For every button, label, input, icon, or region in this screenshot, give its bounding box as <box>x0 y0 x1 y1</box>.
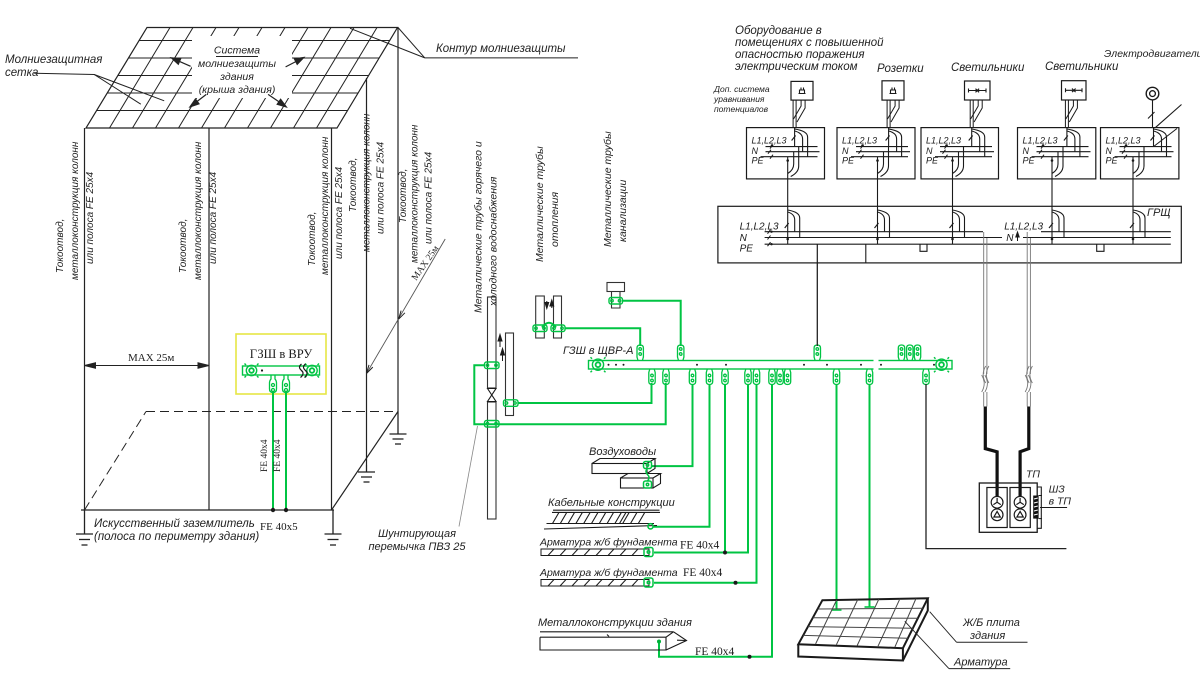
GRSHCH box <box>718 206 1181 263</box>
sewer pipe funnel <box>607 283 625 309</box>
ground perimeter line <box>81 509 334 511</box>
up clamp to GRSHCH PE <box>814 345 820 361</box>
svg-text:FE 40х5: FE 40х5 <box>260 521 298 533</box>
flow arrow pipe1 <box>498 335 502 348</box>
svg-text:Доп. система: Доп. система <box>713 84 770 94</box>
arrow to mesh upper-right <box>286 58 304 67</box>
cable device2 <box>887 100 899 128</box>
svg-text:металлоконструкция колонн: металлоконструкция колонн <box>410 124 421 263</box>
tap from box1 <box>785 206 800 244</box>
svg-text:MAX 25м: MAX 25м <box>128 352 174 364</box>
spare up clamp 2 <box>907 345 913 361</box>
slab wire end tick 1 <box>832 609 842 611</box>
air duct 1 <box>592 459 655 474</box>
transformer 1 delta circle <box>991 509 1003 521</box>
duct clamp 1 <box>644 462 652 469</box>
ground symbol column3 <box>325 510 342 545</box>
tap dot box5 <box>1132 238 1135 241</box>
svg-text:здания: здания <box>969 630 1005 642</box>
GZSh VRU break squiggle <box>300 364 308 378</box>
tap dot box3 <box>951 238 954 241</box>
clamp pipe2 <box>504 400 519 407</box>
socket device 2 <box>882 81 904 100</box>
arrow to mesh lower-right <box>268 94 286 107</box>
down clamp tray <box>706 369 712 385</box>
svg-text:ГЗШ в ЩВР-А: ГЗШ в ЩВР-А <box>563 345 633 357</box>
bus left bolt <box>591 357 606 372</box>
arrow to mesh upper-left <box>171 58 190 67</box>
duct jumper <box>646 469 649 482</box>
down-conductor column 2 <box>208 128 210 510</box>
hot pipes U jumper <box>542 323 556 328</box>
black loop wire to TP <box>926 384 1066 549</box>
tap from box3 <box>950 206 965 244</box>
svg-text:канализации: канализации <box>617 179 629 242</box>
svg-text:или полоса FE 25х4: или полоса FE 25х4 <box>85 171 96 264</box>
leader from kontur label <box>350 28 578 58</box>
svg-text:Токоотвод,: Токоотвод, <box>307 212 318 266</box>
svg-text:L1,L2,L3: L1,L2,L3 <box>740 222 779 233</box>
slab wire end tick 2 <box>865 606 875 608</box>
wire beam <box>659 384 772 657</box>
svg-text:N: N <box>842 146 849 156</box>
conductor text column2 <box>178 141 219 280</box>
black wire GRSHCH to bus <box>816 263 818 346</box>
svg-text:FE 40х4: FE 40х4 <box>260 439 270 472</box>
box5 labels <box>1106 136 1141 166</box>
floor rear dashed edge <box>85 412 399 511</box>
clamp on VRU bus right <box>283 375 290 393</box>
GZSh VRU left bolt <box>245 364 259 378</box>
rebar bar 1 <box>541 549 649 556</box>
heating pipe <box>506 333 514 416</box>
svg-text:Токоотвод,: Токоотвод, <box>348 158 359 212</box>
water pipe upper <box>488 297 497 519</box>
wire ducts <box>651 384 693 466</box>
svg-text:L1,L2,L3: L1,L2,L3 <box>1106 136 1141 146</box>
svg-text:(полоса по периметру здания): (полоса по периметру здания) <box>94 531 259 543</box>
down-conductor column 4 <box>366 78 368 465</box>
transformer cell 1 <box>987 488 1007 528</box>
transformer right wall <box>1037 487 1041 528</box>
dop sistema label <box>713 84 770 114</box>
svg-text:L1,L2,L3: L1,L2,L3 <box>752 136 787 146</box>
FE 40x4 wire left <box>272 393 274 510</box>
box3 ticks <box>943 145 948 159</box>
MAX 25m dimension <box>85 363 210 368</box>
down-conductor column 1 <box>84 128 86 510</box>
svg-text:Арматура: Арматура <box>953 657 1008 669</box>
svg-text:FE 40х4: FE 40х4 <box>683 567 723 579</box>
svg-text:Ж/Б плита: Ж/Б плита <box>962 617 1020 629</box>
svg-text:металлоконструкция колонн: металлоконструкция колонн <box>320 136 331 275</box>
beam green dot <box>657 640 661 644</box>
label iskusstvenny zazemlitel <box>94 518 259 543</box>
water pipes label <box>473 141 500 313</box>
svg-text:L1,L2,L3: L1,L2,L3 <box>926 136 961 146</box>
svg-text:опасностью поражения: опасностью поражения <box>735 49 865 61</box>
tap dot box4 <box>1051 238 1054 241</box>
GZSh VRU bus bar <box>243 366 320 375</box>
GRSHCH left labels <box>740 222 779 255</box>
svg-text:L1,L2,L3: L1,L2,L3 <box>1004 222 1043 233</box>
PE bond stub <box>865 244 867 263</box>
svg-text:Оборудование в: Оборудование в <box>735 25 822 37</box>
clamp sewer pipe <box>609 298 623 305</box>
GRSHCH L bus <box>765 231 1171 233</box>
box5 extra diagonal <box>1154 129 1178 147</box>
transformer 2 delta circle <box>1014 509 1026 521</box>
svg-text:Светильники: Светильники <box>951 62 1025 74</box>
box3 labels <box>926 136 961 166</box>
svg-text:Металлические трубы: Металлические трубы <box>602 131 614 247</box>
ShZ leader <box>1040 507 1067 509</box>
svg-text:N: N <box>1006 233 1014 244</box>
box3 bus lines <box>935 147 994 157</box>
svg-text:здания: здания <box>219 71 254 83</box>
svg-text:Кабельные конструкции: Кабельные конструкции <box>548 497 675 509</box>
MAX 25m diagonal label <box>367 239 446 374</box>
water pipe valve <box>488 389 497 402</box>
box2 PE dot <box>876 159 879 162</box>
svg-text:Шунтирующая: Шунтирующая <box>378 528 456 540</box>
eq box3 to GRSHCH wire <box>952 179 954 206</box>
slab leader <box>930 612 957 643</box>
svg-text:электрическим током: электрическим током <box>735 61 858 73</box>
svg-text:ГРЩ: ГРЩ <box>1147 207 1170 219</box>
box4 PE dot <box>1051 159 1054 162</box>
tap dot box1 <box>786 238 789 241</box>
svg-text:помещениях с повышенной: помещениях с повышенной <box>735 37 884 49</box>
box3 supply drop <box>969 128 985 157</box>
box1 labels <box>752 136 787 166</box>
svg-text:или полоса FE 25х4: или полоса FE 25х4 <box>334 166 345 259</box>
down clamp slab1 <box>833 369 839 385</box>
transformer 1 star circle <box>991 496 1003 508</box>
armatura leader <box>905 621 949 668</box>
box2 bus lines <box>851 147 910 157</box>
socket device 1 <box>791 81 813 100</box>
box1 bus lines <box>761 147 820 157</box>
down clamp rebar1 <box>722 369 728 385</box>
svg-text:Система: Система <box>214 45 260 57</box>
feeder 1 thick cable <box>985 407 997 498</box>
eq box 3 <box>921 128 999 179</box>
up clamp to hot pipes <box>637 345 643 361</box>
box2 L dot <box>861 144 864 147</box>
box2 supply drop <box>886 128 902 157</box>
tap dot box2 <box>876 238 879 241</box>
transformer cell 2 <box>1010 488 1030 528</box>
spare down clamp 1 <box>777 369 783 385</box>
tap from box4 <box>1049 206 1064 244</box>
eq box 2 <box>837 128 915 179</box>
motor symbol <box>1146 87 1159 100</box>
feeder 2 thin lines <box>1027 232 1030 407</box>
clamp on VRU bus left <box>270 375 277 393</box>
transformer outer box <box>979 483 1037 532</box>
eq box 1 <box>747 128 825 179</box>
lamp device 1 <box>965 81 991 100</box>
wire slab1 <box>836 384 838 610</box>
cable motor <box>1148 100 1182 128</box>
hot pipes wire to bus <box>565 328 640 346</box>
PE notch 2 <box>1097 244 1104 251</box>
shunt label <box>368 528 466 553</box>
box4 bus lines <box>1032 147 1091 157</box>
svg-text:металлоконструкция колонн: металлоконструкция колонн <box>70 141 81 280</box>
tap from box2 <box>875 206 890 244</box>
cable lamp2 <box>1065 100 1077 128</box>
eq box1 to GRSHCH wire <box>787 179 789 206</box>
box1 ticks <box>768 145 773 159</box>
spare up clamp 1 <box>898 345 904 361</box>
up clamp to sewer <box>678 345 684 361</box>
FE 40x4 wire right <box>285 393 287 510</box>
bus dots <box>608 364 936 366</box>
svg-text:перемычка ПВЗ 25: перемычка ПВЗ 25 <box>368 541 466 553</box>
junction dot beam <box>748 655 752 659</box>
box5 ticks <box>1122 145 1127 159</box>
hot pipes pair <box>536 296 562 338</box>
shunt jumper wire <box>474 365 665 424</box>
eq box5 to GRSHCH wire <box>1132 179 1134 206</box>
GZSh VRU dot <box>261 369 263 371</box>
wire rebar1 junction <box>724 384 726 553</box>
svg-text:потенциалов: потенциалов <box>714 104 769 114</box>
junction dot rebar2 <box>734 581 738 585</box>
box4 supply drop <box>1064 128 1080 157</box>
svg-text:металлоконструкция колонн: металлоконструкция колонн <box>362 113 373 252</box>
heating pipes label <box>534 146 561 262</box>
svg-text:N: N <box>740 233 748 244</box>
mesh text hole <box>192 36 292 98</box>
leader from setka label <box>34 73 164 104</box>
down clamp beam <box>769 369 775 385</box>
clamp hot pipe right <box>551 325 565 332</box>
svg-text:ТП: ТП <box>1026 469 1040 481</box>
clamp pipe1 upper <box>485 362 500 369</box>
cable lamp1 <box>970 100 982 128</box>
duct clamp 2 <box>644 481 652 488</box>
svg-text:холодного водоснабжения: холодного водоснабжения <box>488 176 500 307</box>
wire rebar1 <box>654 384 748 553</box>
GRSHCH N arrow <box>1016 232 1019 241</box>
eq box2 to GRSHCH wire <box>877 179 879 206</box>
spare up clamp 3 <box>914 345 920 361</box>
svg-text:L1,L2,L3: L1,L2,L3 <box>1023 136 1058 146</box>
box1 PE exit <box>788 147 799 179</box>
wire tray <box>653 384 710 527</box>
down clamp slab2 <box>866 369 872 385</box>
svg-text:Светильники: Светильники <box>1045 61 1119 73</box>
GZSh VRU yellow box <box>236 334 326 394</box>
air duct 2 <box>621 474 661 489</box>
svg-text:ШЗ: ШЗ <box>1049 484 1066 496</box>
svg-text:FE 40х4: FE 40х4 <box>273 439 283 472</box>
steel beam <box>540 632 687 650</box>
GZSh VRU right bolt <box>305 364 319 378</box>
svg-text:Металлические трубы: Металлические трубы <box>534 146 546 262</box>
svg-text:уравнивания: уравнивания <box>713 94 765 104</box>
down clamp water <box>663 369 669 385</box>
svg-text:или полоса FE 25х4: или полоса FE 25х4 <box>376 141 387 234</box>
svg-text:ГЗШ в ВРУ: ГЗШ в ВРУ <box>250 347 313 361</box>
svg-text:Арматура ж/б фундамента: Арматура ж/б фундамента <box>539 567 678 579</box>
pair flow arrows <box>545 300 554 309</box>
box3 L dot <box>945 144 948 147</box>
svg-text:N: N <box>752 146 759 156</box>
svg-text:в ТП: в ТП <box>1049 496 1072 508</box>
svg-text:Арматура ж/б фундамента: Арматура ж/б фундамента <box>539 537 678 549</box>
box5 supply drop <box>1151 128 1167 157</box>
rebar1 clamp <box>644 548 653 557</box>
ground symbol column5 <box>390 412 407 445</box>
roof lightning mesh <box>60 28 420 129</box>
box5 PE exit <box>1133 147 1144 179</box>
clamp hot pipe left <box>533 325 547 332</box>
feeder 1 thin lines <box>984 232 987 407</box>
tap from box5 <box>1130 206 1145 244</box>
label Molniezashchitnaya setka <box>5 54 102 79</box>
slab label <box>962 617 1020 642</box>
conductor text column3 <box>307 136 345 275</box>
eq box 5 <box>1101 128 1179 179</box>
feeder 2 break marks <box>1025 366 1032 392</box>
svg-text:FE 40х4: FE 40х4 <box>680 540 720 552</box>
svg-text:Электродвигатели: Электродвигатели <box>1104 48 1200 60</box>
cable tray <box>544 510 660 529</box>
box5 bus lines <box>1115 147 1174 157</box>
svg-text:Контур молниезащиты: Контур молниезащиты <box>436 43 566 55</box>
conductor text column5 <box>398 124 435 263</box>
svg-text:Токоотвод,: Токоотвод, <box>55 219 66 273</box>
rebar bar 2 <box>541 580 649 587</box>
svg-text:Розетки: Розетки <box>877 63 924 75</box>
svg-text:Токоотвод,: Токоотвод, <box>398 169 409 223</box>
rebar2 clamp <box>644 578 653 587</box>
lamp device 2 <box>1062 81 1087 100</box>
roof system label <box>198 45 276 97</box>
eq box 4 <box>1018 128 1096 179</box>
cable device1 <box>793 100 805 128</box>
svg-text:N: N <box>1023 146 1030 156</box>
eq box4 to GRSHCH wire <box>1051 179 1053 206</box>
svg-text:молниезащиты: молниезащиты <box>198 58 276 70</box>
svg-text:металлоконструкция колонн: металлоконструкция колонн <box>193 141 204 280</box>
bus right bolt <box>934 357 949 372</box>
box5 L dot <box>1125 144 1128 147</box>
arrow to mesh lower-left <box>190 94 206 107</box>
GRSHCH mid labels <box>1004 222 1043 244</box>
box1 supply drop <box>792 128 808 157</box>
box2 ticks <box>859 145 864 159</box>
ground symbol column4 <box>358 465 375 482</box>
PE notch 1 <box>920 244 927 251</box>
svg-text:сетка: сетка <box>5 67 38 79</box>
sewer pipes label <box>602 131 629 247</box>
svg-text:(крыша здания): (крыша здания) <box>199 84 276 96</box>
svg-text:Металлоконструкции здания: Металлоконструкции здания <box>538 617 692 629</box>
box1 L dot <box>771 144 774 147</box>
box3 PE dot <box>951 159 954 162</box>
feeder 1 break marks <box>982 366 989 392</box>
down-conductor column 3 <box>331 128 333 510</box>
box4 ticks <box>1039 145 1044 159</box>
feeder 2 thick cable <box>1020 407 1029 498</box>
tray green connector <box>648 524 653 529</box>
PE exit to bus <box>816 244 818 263</box>
main GZSh bus bar <box>589 361 953 370</box>
GRSHCH PE bus <box>765 243 1171 245</box>
down-conductor column 5 (building rear corner) <box>397 28 399 412</box>
svg-text:отопления: отопления <box>549 192 561 247</box>
ShZ busbar <box>1033 496 1042 519</box>
slab rebar grid <box>803 599 923 648</box>
box2 PE exit <box>878 147 889 179</box>
header label equipment <box>735 25 884 73</box>
conductor text column4 <box>348 113 387 252</box>
junction dot rebar1 <box>723 551 727 555</box>
down clamp rebar1b <box>745 369 751 385</box>
box3 PE exit <box>953 147 964 179</box>
svg-text:Токоотвод,: Токоотвод, <box>178 219 189 273</box>
concrete slab <box>798 598 928 660</box>
shunt leader <box>459 426 478 527</box>
floor right solid edge <box>332 412 399 511</box>
svg-text:или полоса FE 25х4: или полоса FE 25х4 <box>424 151 435 244</box>
svg-text:Молниезащитная: Молниезащитная <box>5 54 102 66</box>
svg-text:N: N <box>926 146 933 156</box>
svg-text:или полоса FE 25х4: или полоса FE 25х4 <box>208 171 219 264</box>
spare down clamp 2 <box>784 369 790 385</box>
conductor text column1 <box>55 141 96 280</box>
GRSHCH N bus <box>765 237 1171 239</box>
svg-text:Искусственный заземлитель: Искусственный заземлитель <box>94 518 255 530</box>
wire rebar2 <box>654 384 757 583</box>
box1 PE dot <box>786 159 789 162</box>
armatura underline <box>949 668 1010 670</box>
underline under Sistema <box>216 56 258 58</box>
box2 labels <box>842 136 877 166</box>
ShZ label <box>1049 484 1072 508</box>
down clamp TP loop <box>923 369 929 385</box>
GRSHCH tick dots <box>770 231 772 246</box>
transformer 2 star circle <box>1014 496 1026 508</box>
svg-text:L1,L2,L3: L1,L2,L3 <box>842 136 877 146</box>
ground symbol column1 <box>76 510 93 545</box>
svg-text:Металлические трубы горячего и: Металлические трубы горячего и <box>473 141 485 313</box>
box5 PE dot <box>1132 159 1135 162</box>
down clamp ducts <box>689 369 695 385</box>
wire slab2 <box>869 384 871 607</box>
svg-text:PE: PE <box>740 244 754 255</box>
bus bar gap <box>874 359 879 371</box>
svg-text:FE 40х4: FE 40х4 <box>695 646 735 658</box>
flow arrow pipe2 <box>501 349 505 362</box>
down clamp heating <box>649 369 655 385</box>
wire end dots <box>271 508 275 512</box>
clamp pipe1 lower <box>485 421 500 428</box>
box4 labels <box>1023 136 1058 166</box>
box4 PE exit <box>1052 147 1063 179</box>
down clamp rebar2 <box>753 369 759 385</box>
heating pair wire <box>518 383 652 403</box>
slab label underline <box>957 641 1028 643</box>
svg-text:N: N <box>1106 146 1113 156</box>
roof outline <box>86 28 398 129</box>
svg-text:Воздуховоды: Воздуховоды <box>589 446 656 458</box>
